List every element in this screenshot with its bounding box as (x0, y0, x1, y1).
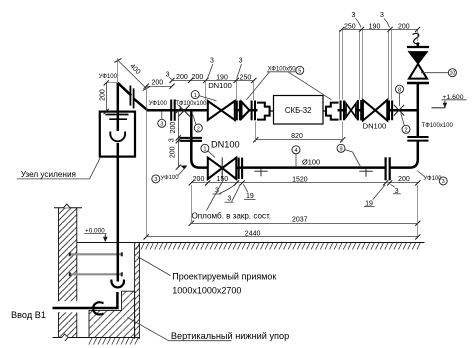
extension lines top-middle (206, 81, 254, 101)
small gap labels 3/19 at right lower flange (364, 184, 401, 207)
dimension line lower run (200/150/1520/200) (189, 176, 421, 185)
wall (hatched building wall, upper part above pipe opening) (59, 208, 77, 301)
reducer ХФ100х50 right (stepped nozzle mirrored) (326, 103, 339, 120)
flange pair before valve U2 (358, 100, 361, 120)
pipe: stub out of meter box (323, 110, 326, 112)
svg-text:Ввод В1: Ввод В1 (11, 310, 46, 320)
support block (vertical lower stop, hatched, stepped) (89, 291, 135, 337)
svg-text:3: 3 (166, 72, 170, 79)
svg-text:3: 3 (227, 196, 231, 203)
pipe: diagonal section (400) upper part (118, 83, 132, 96)
pipe: vertical riser from reinforcement box up to elbow (117, 83, 120, 131)
pipe support T symbol right on lower run (359, 169, 372, 177)
box inner U (water seal) symbol (110, 132, 125, 142)
flange pair after valve U3 (239, 158, 242, 179)
pipe-turn symbol (cup arc) at bottom of riser in pit (111, 280, 124, 288)
gate valve U2 DN100 (upper right, bowtie) (363, 100, 387, 121)
flange pair after valve U2 (389, 100, 392, 120)
pipe: lower run from valve flanges to right flange (236, 166, 385, 169)
svg-text:Проектируемый приямок: Проектируемый приямок (172, 272, 276, 282)
svg-text:200: 200 (193, 176, 205, 183)
svg-text:200: 200 (169, 146, 176, 158)
svg-text:200: 200 (398, 23, 410, 30)
dimension 2037 (189, 185, 421, 226)
svg-text:19: 19 (246, 193, 254, 200)
extension lines top-right down to flanges (340, 30, 418, 100)
svg-text:200: 200 (170, 122, 177, 134)
vertical dimension 200 at box left (100, 80, 118, 114)
pipe support T symbol left on lower run (254, 169, 267, 177)
svg-text:Узел усиления: Узел усиления (21, 170, 76, 179)
svg-text:СКБ-32: СКБ-32 (285, 106, 312, 115)
pit right wall (narrow hatched strip) (135, 243, 140, 339)
node 8 circle with leader to drain X (396, 85, 404, 106)
label УФ100 lower left with node 3 circle and arrow leader (152, 165, 188, 183)
svg-text:5: 5 (298, 69, 301, 75)
pipe: main run valve1 to check valve (235, 109, 241, 112)
svg-text:4: 4 (294, 148, 297, 154)
pipe: vertical through box and down to pit (117, 143, 120, 282)
bottom edge line under block (80, 337, 139, 339)
svg-text:1: 1 (203, 147, 206, 153)
svg-text:820: 820 (291, 133, 303, 140)
svg-text:200: 200 (176, 74, 188, 81)
svg-text:3: 3 (154, 177, 157, 183)
svg-text:200: 200 (151, 79, 163, 86)
svg-text:190: 190 (369, 23, 381, 30)
3-gap labels top-middle with leaders (166, 58, 243, 80)
svg-text:УФ100: УФ100 (149, 101, 168, 107)
flange pair before left reducer (252, 101, 255, 121)
svg-text:3: 3 (239, 58, 243, 65)
svg-text:ТФ100x100: ТФ100x100 (422, 123, 454, 129)
label Вертикальный нижний упор with underline and leader (128, 318, 290, 341)
gate valve U3 DN100 (lower, bowtie with stem) (208, 158, 237, 180)
svg-text:3: 3 (380, 12, 384, 19)
svg-text:250: 250 (344, 23, 356, 30)
node 2 circle right with leader to pipe (401, 114, 410, 134)
svg-text:3: 3 (160, 122, 163, 128)
svg-text:3: 3 (442, 179, 445, 185)
flange pair after valve U1 (237, 101, 240, 121)
svg-text:DN100: DN100 (208, 81, 232, 90)
svg-text:2440: 2440 (245, 230, 261, 237)
svg-text:1520: 1520 (292, 176, 308, 183)
small bowtie valve (throttle) (346, 103, 356, 117)
svg-text:250: 250 (240, 74, 252, 81)
elevation mark +0.000 (84, 227, 107, 242)
svg-text:2037: 2037 (292, 217, 308, 224)
X mark (tee/tap symbol) on main run (178, 105, 189, 116)
pipe: main run after check valve cone (249, 109, 257, 112)
pipe: inlet B1 bottom horizontal with turn-up stub (53, 292, 118, 308)
svg-text:3: 3 (210, 58, 214, 65)
wall (hatched building wall, lower part below pipe opening) (59, 312, 77, 337)
svg-text:УФ100: УФ100 (160, 175, 179, 182)
label УФ100 lower right with node 3 circle (417, 171, 447, 186)
pipe: stub above safety valve to break symbol (417, 43, 420, 47)
node 9 circle with leader to support (337, 144, 361, 167)
pipe: main horizontal run left part (147, 109, 208, 112)
gate valve U1 DN100 (upper, bowtie) (208, 101, 235, 120)
water meter box СКБ-32 (274, 96, 324, 125)
dimension line 200 left of flange (diagonal base) (144, 79, 175, 88)
pipe: main run between small bowtie and valve2 (356, 109, 363, 112)
flange pair after right reducer (341, 101, 344, 121)
node 1 circle upper with leader to valve U1 (191, 91, 216, 101)
wall rung (sleeve) lower (69, 272, 123, 276)
svg-text:1: 1 (194, 93, 197, 99)
svg-text:200: 200 (192, 74, 204, 81)
svg-text:2: 2 (197, 126, 200, 132)
dimension line top-right (250/190/200) (339, 23, 420, 32)
check valve cone (242, 102, 250, 119)
svg-text:1000х1000х2700: 1000х1000х2700 (172, 286, 241, 296)
label Опломб. в закр. сост. with leader (192, 181, 272, 221)
wall bottom edge with break mark (53, 334, 81, 341)
small gap labels 3/3/19 at lower valve (213, 184, 256, 203)
label DN100 valve U3 with node 1 circle (201, 140, 240, 158)
svg-text:8: 8 (398, 88, 401, 94)
box inner top plate lines (105, 115, 128, 120)
wall rung (sleeve) upper (69, 252, 123, 256)
floor line of pit (left, at +0.000) (77, 242, 135, 244)
svg-text:DN100: DN100 (363, 121, 387, 130)
dimension 2440 (144, 87, 421, 240)
svg-text:2: 2 (404, 128, 407, 134)
svg-text:9: 9 (339, 147, 342, 153)
pipe: right riser between flange and main run (417, 110, 420, 137)
pipe-turn symbol (C arc) on inlet pipe (93, 302, 103, 314)
svg-text:Вертикальный нижний упор: Вертикальный нижний упор (171, 331, 289, 341)
label Узел усиления with underline and leader (17, 157, 101, 179)
label Проектируемый приямок with leader (138, 257, 277, 296)
svg-text:3: 3 (169, 138, 176, 142)
pipe: main run valve2 to right riser (387, 109, 419, 112)
node 3 circle below УФ100 left with leader (158, 112, 166, 128)
label ХФ100х50 with node 5 circle and leaders (247, 66, 332, 100)
node 10 circle with leader to safety valve (421, 69, 456, 77)
diagonal dimension 400 (114, 58, 150, 91)
svg-text:DN100: DN100 (211, 140, 240, 150)
elevation mark +1.600 (432, 94, 467, 108)
safety relief valve assembly on right riser (407, 47, 429, 83)
flange pair on right riser (ТФ100х100) (407, 137, 428, 141)
svg-text:200: 200 (100, 89, 107, 101)
pipe: stub into meter box (270, 110, 274, 112)
flange pair on main run (left, at ТФ100х100) (171, 100, 175, 121)
svg-text:10: 10 (450, 71, 456, 77)
flange pair on drop pipe (180, 138, 203, 141)
ground hatch ticks under bottom line (89, 338, 138, 345)
svg-text:3: 3 (351, 12, 355, 19)
dimension 820 under meter (253, 122, 345, 143)
pipe: lower run right end with elbow up to riser (390, 141, 418, 168)
3-gap labels top-right with leaders (351, 12, 389, 27)
flange pair on lower run right end (386, 157, 390, 180)
svg-text:200: 200 (398, 176, 410, 183)
svg-text:ТФ100x100: ТФ100x100 (175, 101, 207, 107)
flange pair on diagonal pipe (130, 86, 133, 109)
vertical dimension chain 200/3/200 at drop pipe (169, 108, 181, 170)
svg-text:Опломб. в закр. сост.: Опломб. в закр. сост. (192, 212, 272, 221)
dimension line top-middle (200/200/190/250) (169, 74, 256, 83)
node 2 circle with leader to drop tee (193, 115, 203, 133)
X mark (drain tap) right of valve U2 (394, 105, 404, 116)
pipe: main run between right reducer and small bowtie (338, 109, 346, 112)
ground surface line right of pit with hatch ticks (135, 243, 425, 250)
pipe: drop pipe from tee with elbow into lower run (191, 110, 208, 167)
svg-text:УФ100: УФ100 (99, 74, 118, 80)
wall top edge with break mark (54, 204, 82, 208)
reducer ХФ100х50 left (stepped nozzle) (257, 103, 270, 120)
pipe: right riser from main run up to safety valve (417, 84, 420, 111)
pipe: diagonal section lower part (134, 99, 148, 111)
break squiggle atop right riser (413, 33, 420, 43)
reinforcement unit box (узел усиления) (100, 112, 135, 157)
label Ø100 with node 4 circle and leader (292, 146, 320, 167)
svg-text:Ø100: Ø100 (302, 157, 320, 166)
